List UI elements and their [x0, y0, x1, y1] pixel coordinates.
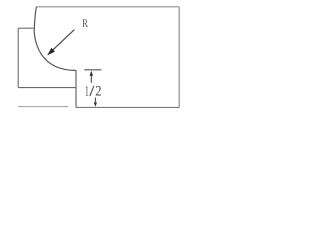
dimension up arrow [90, 71, 93, 83]
part step vertical edge [75, 70, 77, 107]
part right edge [178, 7, 180, 108]
svg-text:R: R [82, 16, 88, 30]
svg-text:2: 2 [95, 84, 101, 100]
label R [82, 16, 88, 30]
extension line tick [84, 69, 101, 71]
left boss horizontal edge [18, 27, 33, 29]
dimension down arrow [94, 98, 97, 107]
left boss bottom edge [18, 87, 76, 89]
part top edge [36, 6, 179, 8]
dimension text 1/2 [85, 84, 102, 100]
left boss vertical edge [17, 28, 19, 87]
light base line [18, 106, 68, 108]
svg-text:1: 1 [85, 84, 89, 100]
part bottom edge [76, 106, 179, 108]
leader arrowhead [47, 48, 55, 56]
fillet curve [34, 7, 76, 71]
leader line for R [51, 30, 75, 53]
